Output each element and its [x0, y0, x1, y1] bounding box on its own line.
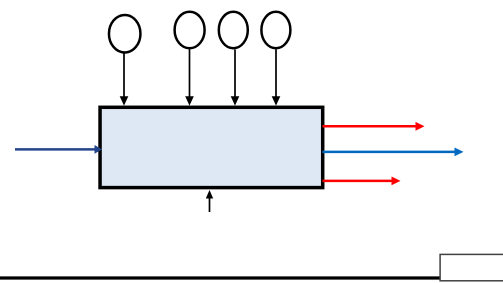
baseline	[0, 276, 441, 279]
bubble 2	[175, 12, 205, 48]
bubble 1	[109, 15, 141, 53]
step rectangle (bottom right)	[440, 254, 503, 280]
down arrow 4	[272, 50, 281, 106]
outlet arrow top (red)	[323, 122, 425, 131]
bubble 3	[219, 12, 248, 48]
outlet arrow bottom (red)	[323, 177, 401, 186]
down arrow 2	[185, 50, 194, 106]
down arrow 1	[120, 54, 129, 106]
process box	[100, 107, 323, 187]
down arrow 3	[231, 50, 240, 106]
bubble 4	[261, 12, 290, 48]
feed arrow (left, dark blue)	[15, 145, 102, 154]
bottom up arrow	[206, 190, 213, 212]
outlet arrow middle (blue)	[323, 148, 464, 157]
